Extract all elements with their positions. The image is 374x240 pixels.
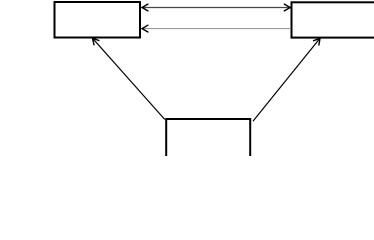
wire: lower horizontal line — [142, 28, 291, 30]
wire: left diagonal arrow — [93, 38, 165, 119]
arrowhead top of right diagonal — [314, 38, 320, 45]
arrowhead left of top line — [142, 4, 148, 11]
box: bottom-center (clipped at bottom edge) — [166, 119, 250, 164]
arrowhead right of top line — [284, 4, 290, 11]
arrowhead top of left diagonal — [93, 38, 99, 45]
box: top-left — [55, 2, 141, 38]
box: top-right (clipped at right edge) — [292, 2, 374, 37]
arrowhead left of lower line — [142, 25, 148, 32]
wire: right diagonal arrow — [253, 38, 320, 121]
wire: top horizontal double-arrow line — [142, 7, 290, 9]
